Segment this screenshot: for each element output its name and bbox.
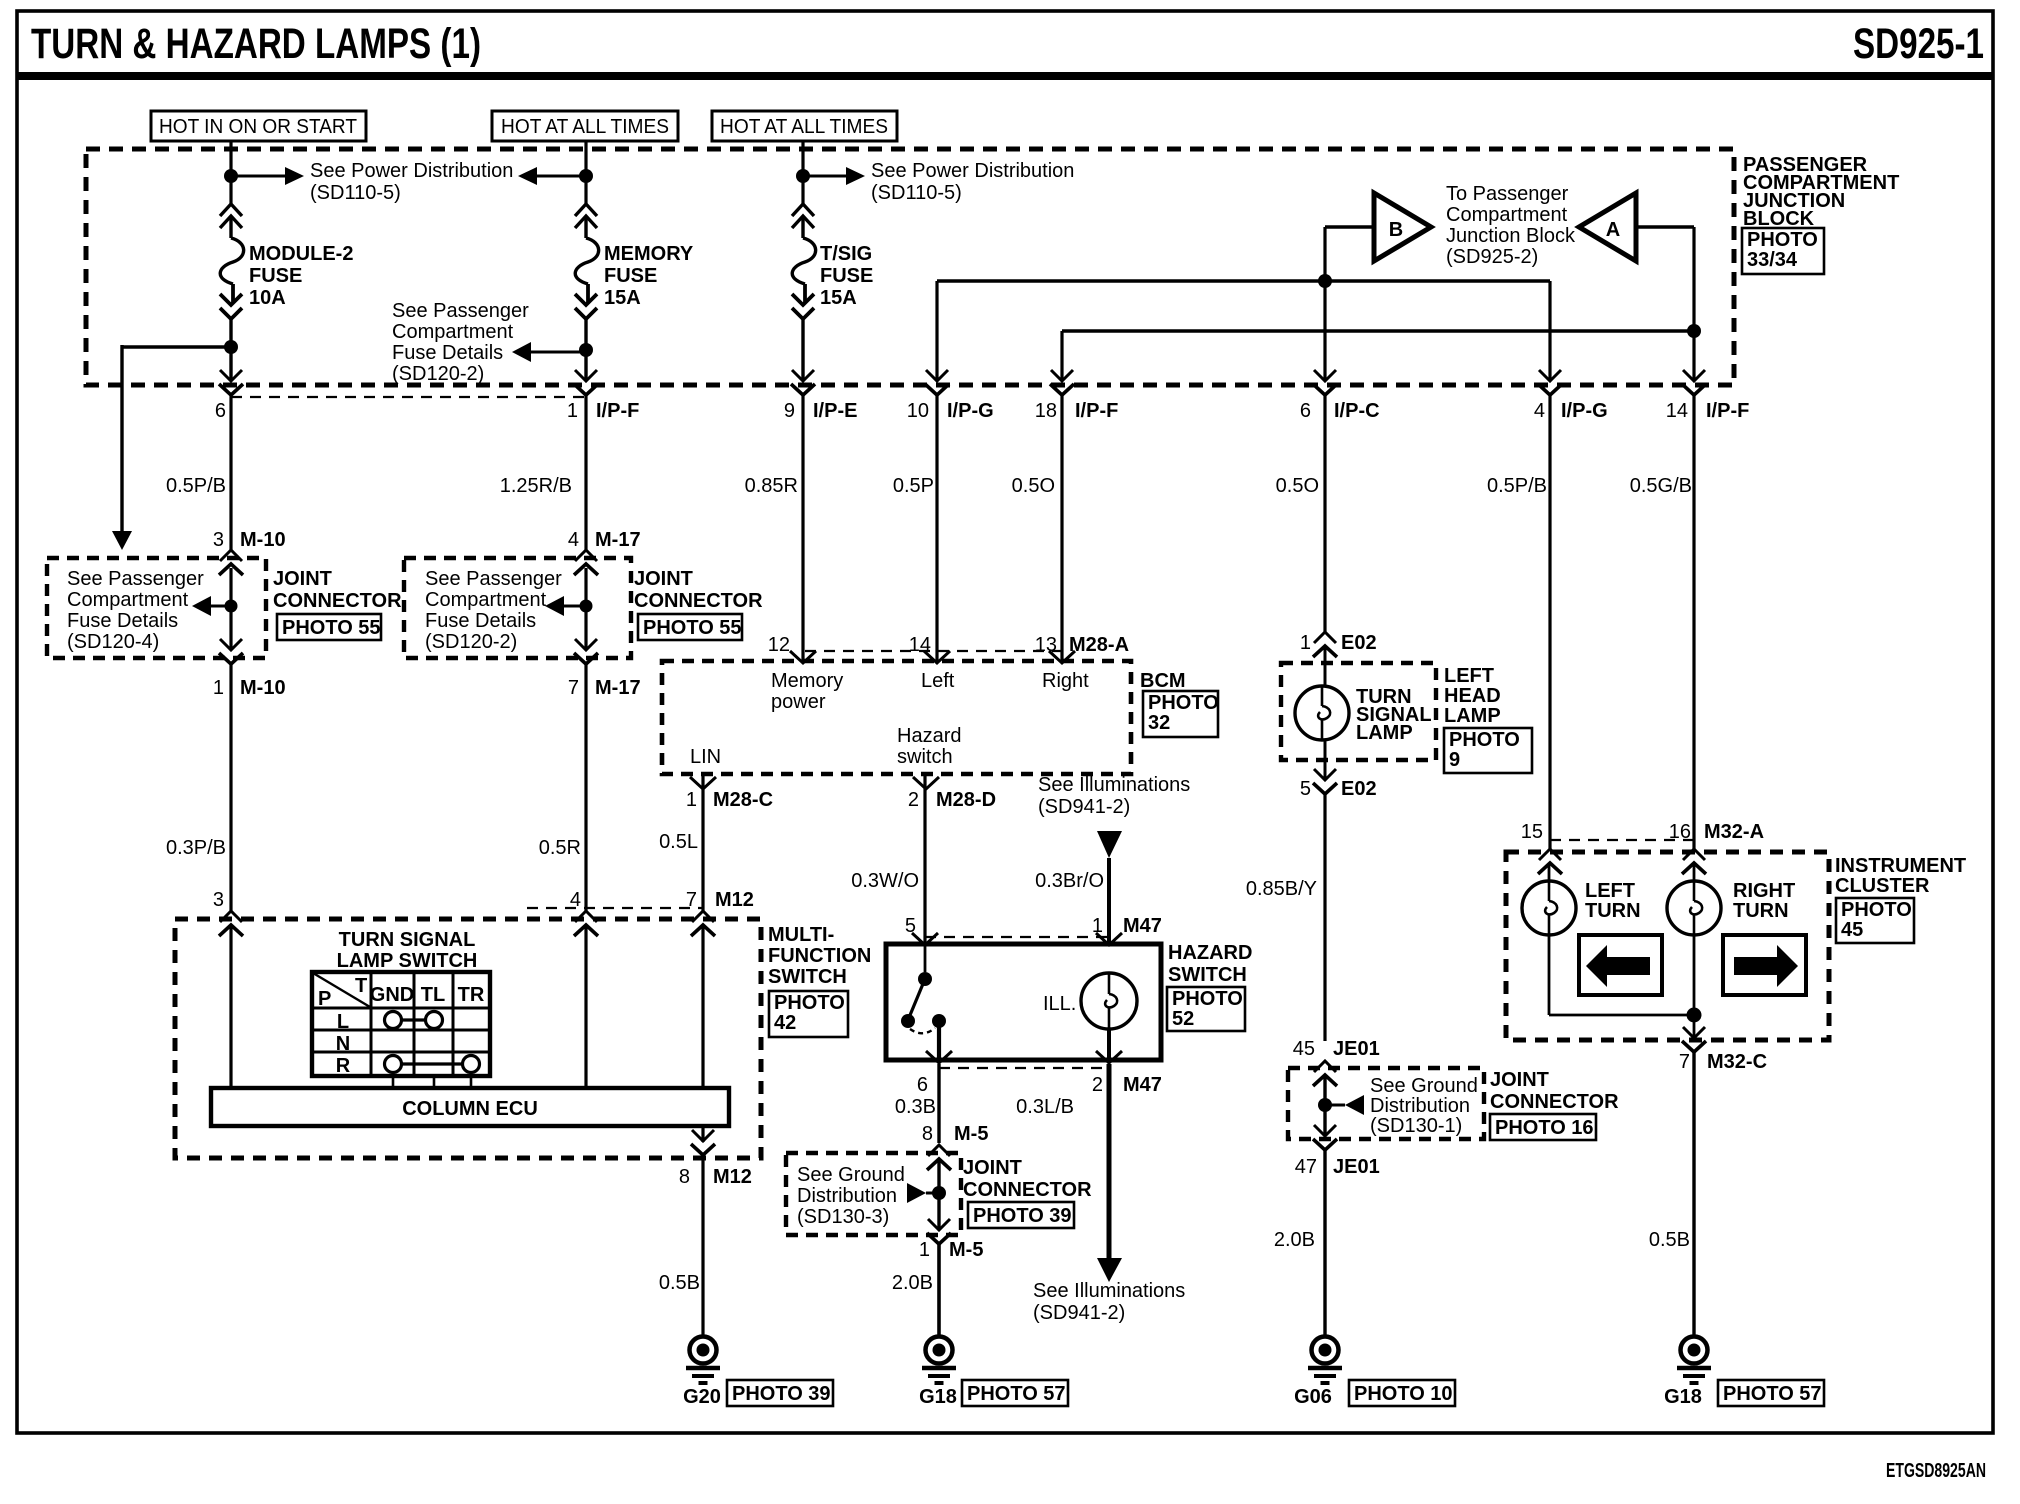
- wire to left turn lamp: [1548, 864, 1551, 882]
- wire 2.0B to G06: [1323, 1150, 1326, 1338]
- wire 0.3Br/O: [1107, 858, 1111, 944]
- svg-text:Hazard: Hazard: [897, 725, 961, 747]
- BCM terminal 14: [924, 651, 950, 663]
- svg-text:Right: Right: [1042, 670, 1089, 692]
- svg-text:M-17: M-17: [595, 529, 641, 551]
- connector 1 E02: [1313, 632, 1337, 657]
- wire 0.5P/B lower: [1548, 395, 1551, 851]
- wire inside JE01: [1323, 1075, 1326, 1136]
- svg-text:I/P-G: I/P-G: [947, 400, 994, 422]
- svg-text:2: 2: [1092, 1074, 1103, 1096]
- wire 0.5P/B cluster feed: [1548, 281, 1551, 381]
- svg-text:HEAD: HEAD: [1444, 685, 1501, 707]
- svg-text:PHOTO: PHOTO: [1449, 729, 1520, 751]
- svg-text:M12: M12: [713, 1166, 752, 1188]
- svg-text:0.3Br/O: 0.3Br/O: [1035, 870, 1104, 892]
- wire bus left-turn feed: [937, 279, 1550, 282]
- svg-text:1: 1: [213, 677, 224, 699]
- svg-text:6: 6: [1300, 400, 1311, 422]
- node branch to SD120-4: [224, 340, 238, 354]
- label TURN SIGNAL LAMP: [1356, 686, 1432, 744]
- label MODULE-2 FUSE 10A: [249, 243, 353, 309]
- photo ref PHOTO 10: [1349, 1380, 1455, 1406]
- wire A-triangle to right bus: [1636, 225, 1694, 228]
- svg-text:LIN: LIN: [690, 746, 721, 768]
- icon right arrow: [1734, 945, 1798, 987]
- svg-text:M28-A: M28-A: [1069, 634, 1129, 656]
- wire into column ecu: [229, 925, 232, 1090]
- photo ref PHOTO 45: [1836, 898, 1914, 943]
- svg-text:JOINT: JOINT: [273, 568, 332, 590]
- svg-text:G20: G20: [683, 1386, 721, 1408]
- photo ref PHOTO 39 (M-5): [968, 1202, 1074, 1228]
- wire contact to box bottom: [937, 1021, 941, 1060]
- fuse T/SIG 15A: [792, 204, 816, 319]
- label MEMORY FUSE 15A: [604, 243, 694, 309]
- svg-text:L: L: [337, 1011, 349, 1033]
- svg-text:0.5P/B: 0.5P/B: [166, 475, 226, 497]
- wire t/sig fuse lower: [801, 317, 804, 381]
- svg-text:10A: 10A: [249, 287, 286, 309]
- ground G06: [1308, 1337, 1342, 1384]
- connector 47 JE01: [1313, 1125, 1337, 1150]
- svg-text:45: 45: [1293, 1038, 1315, 1060]
- svg-text:2.0B: 2.0B: [892, 1272, 933, 1294]
- svg-text:See Illuminations: See Illuminations: [1033, 1280, 1185, 1302]
- switch table turn signal lamp switch: [312, 972, 490, 1076]
- lamp LEFT TURN: [1522, 881, 1576, 935]
- svg-text:14: 14: [909, 634, 931, 656]
- connector pin 6 I/P-C: [1313, 370, 1337, 395]
- svg-text:Distribution: Distribution: [797, 1185, 897, 1207]
- svg-text:18: 18: [1035, 400, 1057, 422]
- label PASSENGER COMPARTMENT JUNCTION BLOCK: [1743, 154, 1899, 230]
- wire into head lamp: [1324, 646, 1327, 687]
- wire 0.5G/B lower: [1692, 395, 1695, 851]
- wire lamp to connector 5 E02: [1324, 740, 1327, 780]
- hazard switch arm: [908, 979, 925, 1020]
- BCM terminal 2 M28-D: [913, 777, 939, 789]
- svg-text:Compartment: Compartment: [1446, 204, 1568, 226]
- connector row M47 dashed lower: [939, 1067, 1109, 1069]
- arrow to illuminations lower: [1097, 1258, 1122, 1282]
- svg-text:47: 47: [1295, 1156, 1317, 1178]
- svg-text:Memory: Memory: [771, 670, 843, 692]
- svg-text:9: 9: [1449, 749, 1460, 771]
- node SD120-4 tap: [225, 600, 238, 613]
- hazard switch terminal 6: [926, 1051, 952, 1063]
- svg-text:M47: M47: [1123, 915, 1162, 937]
- passenger compartment junction block outline: [86, 149, 1734, 385]
- svg-text:TR: TR: [458, 984, 485, 1006]
- triangle connector B: [1374, 193, 1431, 261]
- wire into column ecu (0.5R): [584, 925, 587, 1090]
- arrow from illuminations: [1097, 831, 1122, 858]
- svg-text:Compartment: Compartment: [67, 589, 189, 611]
- svg-text:SWITCH: SWITCH: [1168, 964, 1247, 986]
- node SD120-2 tap: [580, 600, 593, 613]
- svg-text:I/P-F: I/P-F: [1075, 400, 1118, 422]
- svg-text:M-5: M-5: [949, 1239, 983, 1261]
- svg-text:(SD120-2): (SD120-2): [392, 363, 484, 385]
- wire 0.5B to G20: [701, 1155, 704, 1338]
- svg-text:M-10: M-10: [240, 677, 286, 699]
- arrow ground distribution SD130-3: [907, 1183, 926, 1203]
- svg-text:(SD130-3): (SD130-3): [797, 1206, 889, 1228]
- node cluster lamp junction: [1687, 1008, 1702, 1023]
- svg-text:4: 4: [1534, 400, 1545, 422]
- svg-text:PHOTO: PHOTO: [1148, 692, 1219, 714]
- svg-text:45: 45: [1841, 919, 1863, 941]
- connector pin 1 I/P-F: [574, 370, 598, 395]
- svg-text:MEMORY: MEMORY: [604, 243, 694, 265]
- wire memory fuse lower: [584, 317, 587, 381]
- ground G18 (hazard): [922, 1337, 956, 1384]
- svg-text:PHOTO 39: PHOTO 39: [732, 1383, 831, 1405]
- node bus junction A: [1687, 324, 1701, 338]
- svg-text:0.85R: 0.85R: [745, 475, 798, 497]
- wire to right turn lamp: [1693, 864, 1696, 882]
- arrow to fuse details SD120-2: [545, 596, 564, 616]
- svg-text:I/P-E: I/P-E: [813, 400, 857, 422]
- arrow to fuse details SD120-4: [192, 596, 211, 616]
- arrow to fuse details upper: [512, 342, 531, 362]
- svg-text:JOINT: JOINT: [963, 1157, 1022, 1179]
- svg-text:2.0B: 2.0B: [1274, 1229, 1315, 1251]
- svg-text:N: N: [336, 1033, 350, 1055]
- svg-text:CONNECTOR: CONNECTOR: [273, 590, 402, 612]
- hazard switch terminal 2 M47: [1096, 1051, 1122, 1063]
- svg-text:(SD110-5): (SD110-5): [871, 182, 962, 204]
- connector row M32-A dashed: [1550, 839, 1694, 841]
- svg-text:15: 15: [1521, 821, 1543, 843]
- svg-text:HOT AT ALL TIMES: HOT AT ALL TIMES: [501, 116, 669, 138]
- wire 0.5P/B upper: [229, 395, 232, 552]
- svg-text:TURN SIGNAL: TURN SIGNAL: [339, 929, 476, 951]
- wire 0.5B cluster to G18: [1692, 1052, 1695, 1338]
- icon right turn arrow box: [1723, 935, 1806, 995]
- svg-text:Fuse Details: Fuse Details: [392, 342, 503, 364]
- svg-text:T: T: [355, 975, 367, 997]
- svg-text:6: 6: [917, 1074, 928, 1096]
- connector 7 M-17: [574, 639, 598, 664]
- svg-text:7: 7: [568, 677, 579, 699]
- svg-text:JE01: JE01: [1333, 1156, 1380, 1178]
- svg-text:0.5B: 0.5B: [659, 1272, 700, 1294]
- wire branch left: [122, 345, 231, 348]
- wire branch down: [120, 345, 123, 531]
- wire from HOT IN ON OR START to fuse: [229, 141, 232, 204]
- wire 0.5R: [584, 664, 587, 912]
- svg-text:0.5R: 0.5R: [539, 837, 581, 859]
- svg-text:Junction Block: Junction Block: [1446, 225, 1576, 247]
- svg-text:7: 7: [1679, 1051, 1690, 1073]
- photo ref PHOTO 55 (M-17): [638, 614, 742, 640]
- connector pin 9 I/P-E: [791, 370, 815, 395]
- label MULTI-FUNCTION SWITCH: [768, 924, 871, 988]
- lamp turn signal (left head lamp): [1295, 686, 1349, 740]
- svg-text:HOT IN ON OR START: HOT IN ON OR START: [159, 116, 357, 138]
- wire 0.5P: [935, 395, 938, 662]
- hazard switch arm pivot: [901, 1014, 915, 1028]
- icon left arrow: [1586, 945, 1650, 987]
- label JOINT CONNECTOR (M-17): [634, 568, 763, 612]
- svg-text:MODULE-2: MODULE-2: [249, 243, 353, 265]
- wire 0.3W/O: [923, 776, 926, 944]
- arrow to power distribution (memory): [518, 167, 537, 185]
- arrow to power distribution (t/sig): [846, 167, 865, 185]
- power tag HOT AT ALL TIMES (memory): [492, 111, 678, 141]
- joint connector JE01 box: [1288, 1068, 1484, 1139]
- svg-text:LEFT: LEFT: [1444, 665, 1494, 687]
- svg-text:33/34: 33/34: [1747, 249, 1798, 271]
- svg-text:42: 42: [774, 1012, 796, 1034]
- wire 0.5O (turn lamp): [1323, 395, 1326, 632]
- svg-text:M28-C: M28-C: [713, 789, 773, 811]
- photo ref PHOTO 55 (M-10): [277, 614, 381, 640]
- label HAZARD SWITCH: [1168, 942, 1252, 986]
- note See Illuminations (SD941-2) lower: [1033, 1280, 1185, 1324]
- svg-text:0.5B: 0.5B: [1649, 1229, 1690, 1251]
- BCM terminal 1 M28-C: [690, 777, 716, 789]
- svg-text:See Power Distribution: See Power Distribution: [871, 160, 1074, 182]
- svg-text:8: 8: [679, 1166, 690, 1188]
- svg-text:FUNCTION: FUNCTION: [768, 945, 871, 967]
- svg-text:10: 10: [907, 400, 929, 422]
- svg-text:COLUMN ECU: COLUMN ECU: [402, 1098, 538, 1120]
- svg-text:(SD120-4): (SD120-4): [67, 631, 159, 653]
- icon left turn arrow box: [1579, 935, 1662, 995]
- svg-text:FUSE: FUSE: [249, 265, 302, 287]
- svg-text:JOINT: JOINT: [1490, 1069, 1549, 1091]
- module BCM box: [662, 661, 1131, 774]
- ground G18 (cluster): [1677, 1337, 1711, 1384]
- switch contacts row L: [385, 1012, 443, 1029]
- wire 0.3L/B: [1107, 1064, 1112, 1260]
- node bus junction B: [1318, 274, 1332, 288]
- svg-text:ETGSD8925AN: ETGSD8925AN: [1886, 1460, 1986, 1482]
- svg-text:2: 2: [908, 789, 919, 811]
- note See Ground Distribution (SD130-3): [797, 1164, 905, 1228]
- hazard switch fixed contact: [918, 972, 932, 986]
- photo ref PHOTO 52: [1167, 987, 1245, 1031]
- svg-text:M28-D: M28-D: [936, 789, 996, 811]
- svg-text:Fuse Details: Fuse Details: [425, 610, 536, 632]
- connector 8 M12: [691, 1130, 715, 1155]
- svg-text:1: 1: [686, 789, 697, 811]
- wire from HOT AT ALL TIMES to memory fuse: [584, 141, 587, 204]
- svg-text:9: 9: [784, 400, 795, 422]
- svg-text:0.5G/B: 0.5G/B: [1630, 475, 1692, 497]
- svg-text:8: 8: [922, 1123, 933, 1145]
- svg-text:Fuse Details: Fuse Details: [67, 610, 178, 632]
- svg-text:E02: E02: [1341, 632, 1377, 654]
- svg-text:CONNECTOR: CONNECTOR: [963, 1179, 1092, 1201]
- svg-text:0.3P/B: 0.3P/B: [166, 837, 226, 859]
- svg-text:0.3B: 0.3B: [895, 1096, 936, 1118]
- switch contacts row R: [385, 1056, 480, 1073]
- svg-text:JOINT: JOINT: [634, 568, 693, 590]
- note See Passenger Compartment Fuse Details (SD120-2) upper: [392, 300, 529, 385]
- wire to power distribution arrow left: [537, 175, 586, 178]
- svg-text:CONNECTOR: CONNECTOR: [1490, 1091, 1619, 1113]
- arrow ground distribution JE01: [1345, 1095, 1364, 1115]
- svg-text:R: R: [336, 1055, 351, 1077]
- connector 5 E02: [1313, 769, 1337, 794]
- svg-text:(SD120-2): (SD120-2): [425, 631, 517, 653]
- svg-text:PHOTO 55: PHOTO 55: [282, 617, 381, 639]
- svg-text:LAMP: LAMP: [1444, 705, 1501, 727]
- connector pin 10 I/P-G: [925, 370, 949, 395]
- hazard switch output contact: [932, 1014, 946, 1028]
- module LEFT HEAD LAMP box: [1281, 663, 1436, 760]
- fuse MEMORY 15A: [575, 204, 599, 319]
- svg-text:15A: 15A: [604, 287, 641, 309]
- label LEFT TURN: [1585, 880, 1641, 922]
- svg-text:12: 12: [768, 634, 790, 656]
- svg-text:15A: 15A: [820, 287, 857, 309]
- svg-text:LAMP SWITCH: LAMP SWITCH: [337, 950, 478, 972]
- arrow to power distribution: [285, 167, 304, 185]
- wire to see-power-distribution arrow: [231, 175, 285, 178]
- label JOINT CONNECTOR (M-5): [963, 1157, 1092, 1201]
- node power distribution tap (t/sig): [796, 169, 810, 183]
- photo ref PHOTO 32: [1143, 691, 1218, 737]
- svg-text:HOT AT ALL TIMES: HOT AT ALL TIMES: [720, 116, 888, 138]
- BCM pin name Memory power: [771, 670, 843, 713]
- wire B-triangle feed down: [1323, 227, 1326, 381]
- table row labels L N R: [336, 1011, 351, 1077]
- svg-text:PHOTO: PHOTO: [1841, 899, 1912, 921]
- photo ref PHOTO 57 (G18 hazard): [962, 1380, 1068, 1406]
- fuse MODULE-2 10A: [220, 204, 244, 319]
- svg-text:PHOTO 55: PHOTO 55: [643, 617, 742, 639]
- svg-text:To Passenger: To Passenger: [1446, 183, 1569, 205]
- svg-text:PHOTO 57: PHOTO 57: [967, 1383, 1066, 1405]
- svg-text:G06: G06: [1294, 1386, 1332, 1408]
- wire left lamp down: [1548, 935, 1551, 1015]
- connector 7 M32-C: [1682, 1027, 1706, 1052]
- svg-text:0.5O: 0.5O: [1276, 475, 1319, 497]
- svg-text:13: 13: [1035, 634, 1057, 656]
- svg-text:BLOCK: BLOCK: [1743, 208, 1815, 230]
- svg-text:G18: G18: [919, 1386, 957, 1408]
- wire B-triangle to bus: [1325, 225, 1374, 228]
- joint connector SD120-4 box: [47, 558, 266, 658]
- connector row M47 dashed upper: [925, 936, 1109, 938]
- svg-text:M-17: M-17: [595, 677, 641, 699]
- connector pin 18 I/P-F: [1050, 370, 1074, 395]
- note See Power Distribution (SD110-5) right: [871, 160, 1074, 204]
- wire ill lamp to box bottom: [1107, 1029, 1111, 1060]
- wire inside SD120-2: [584, 568, 587, 650]
- wire bus right-turn feed: [1062, 329, 1694, 332]
- svg-text:M-5: M-5: [954, 1123, 988, 1145]
- svg-text:14: 14: [1666, 400, 1688, 422]
- svg-text:JE01: JE01: [1333, 1038, 1380, 1060]
- svg-text:0.85B/Y: 0.85B/Y: [1246, 878, 1317, 900]
- svg-text:5: 5: [1300, 778, 1311, 800]
- svg-text:switch: switch: [897, 746, 953, 768]
- svg-text:0.5P: 0.5P: [893, 475, 934, 497]
- connector row dashed M-connector: [231, 396, 586, 398]
- BCM terminal 13 M28-A: [1049, 651, 1075, 663]
- svg-text:See Illuminations: See Illuminations: [1038, 774, 1190, 796]
- label INSTRUMENT CLUSTER: [1835, 855, 1966, 897]
- svg-text:RIGHT: RIGHT: [1733, 880, 1795, 902]
- note See Power Distribution (SD110-5) left: [310, 160, 513, 204]
- svg-text:CONNECTOR: CONNECTOR: [634, 590, 763, 612]
- wire to power distribution arrow right: [803, 175, 846, 178]
- svg-text:3: 3: [213, 889, 224, 911]
- svg-text:M47: M47: [1123, 1074, 1162, 1096]
- wire 2.0B to G18: [937, 1244, 941, 1338]
- joint connector SD120-2 box: [404, 558, 631, 658]
- module COLUMN ECU box: [211, 1088, 729, 1126]
- wire into column ecu (LIN): [701, 925, 704, 1090]
- note See Ground Distribution (SD130-1): [1370, 1075, 1478, 1137]
- label TURN SIGNAL LAMP SWITCH: [337, 929, 478, 972]
- connector 4 M-17: [574, 550, 598, 575]
- svg-text:(SD925-2): (SD925-2): [1446, 246, 1538, 268]
- svg-text:B: B: [1389, 219, 1403, 241]
- svg-text:3: 3: [213, 529, 224, 551]
- module multi-function switch outline: [175, 919, 761, 1158]
- lamp RIGHT TURN: [1667, 881, 1721, 935]
- svg-text:1.25R/B: 1.25R/B: [500, 475, 572, 497]
- svg-text:M-10: M-10: [240, 529, 286, 551]
- svg-text:TL: TL: [421, 984, 445, 1006]
- node SD130-3 tap: [932, 1186, 946, 1200]
- node power distribution tap (module-2): [224, 169, 238, 183]
- wire 0.5G/B cluster feed: [1692, 227, 1695, 381]
- svg-text:I/P-G: I/P-G: [1561, 400, 1608, 422]
- label RIGHT TURN: [1733, 880, 1795, 922]
- svg-text:(SD941-2): (SD941-2): [1033, 1302, 1125, 1324]
- svg-text:BCM: BCM: [1140, 670, 1186, 692]
- connector row M28-A dashed: [805, 650, 1062, 652]
- svg-text:1: 1: [919, 1239, 930, 1261]
- note See Illuminations (SD941-2) upper: [1038, 774, 1190, 818]
- connector 1 M-10: [219, 639, 243, 664]
- svg-text:1: 1: [567, 400, 578, 422]
- wire 0.85R: [801, 395, 804, 662]
- svg-text:See Passenger: See Passenger: [392, 300, 529, 322]
- ground G20: [686, 1337, 720, 1384]
- svg-text:SWITCH: SWITCH: [768, 966, 847, 988]
- svg-text:0.3W/O: 0.3W/O: [851, 870, 919, 892]
- note See Passenger Compartment Fuse Details (SD120-4): [67, 568, 204, 653]
- label T/SIG FUSE 15A: [820, 243, 873, 309]
- svg-text:M12: M12: [715, 889, 754, 911]
- svg-text:I/P-F: I/P-F: [1706, 400, 1749, 422]
- svg-text:TURN: TURN: [1585, 900, 1641, 922]
- svg-text:PHOTO: PHOTO: [774, 992, 845, 1014]
- svg-text:PHOTO 16: PHOTO 16: [1495, 1117, 1594, 1139]
- svg-text:Compartment: Compartment: [392, 321, 514, 343]
- svg-text:See Passenger: See Passenger: [67, 568, 204, 590]
- svg-text:FUSE: FUSE: [820, 265, 873, 287]
- svg-text:PHOTO: PHOTO: [1172, 988, 1243, 1010]
- module INSTRUMENT CLUSTER box: [1506, 852, 1829, 1040]
- connector 3 M-10: [219, 550, 243, 575]
- connector row M12 dashed: [527, 907, 703, 909]
- wire from HOT AT ALL TIMES to t/sig fuse: [801, 141, 804, 204]
- svg-text:TURN: TURN: [1733, 900, 1789, 922]
- joint connector SD130-3 box: [786, 1153, 961, 1235]
- hazard switch terminal 1: [1096, 933, 1122, 945]
- photo ref PHOTO 33/34: [1742, 228, 1824, 274]
